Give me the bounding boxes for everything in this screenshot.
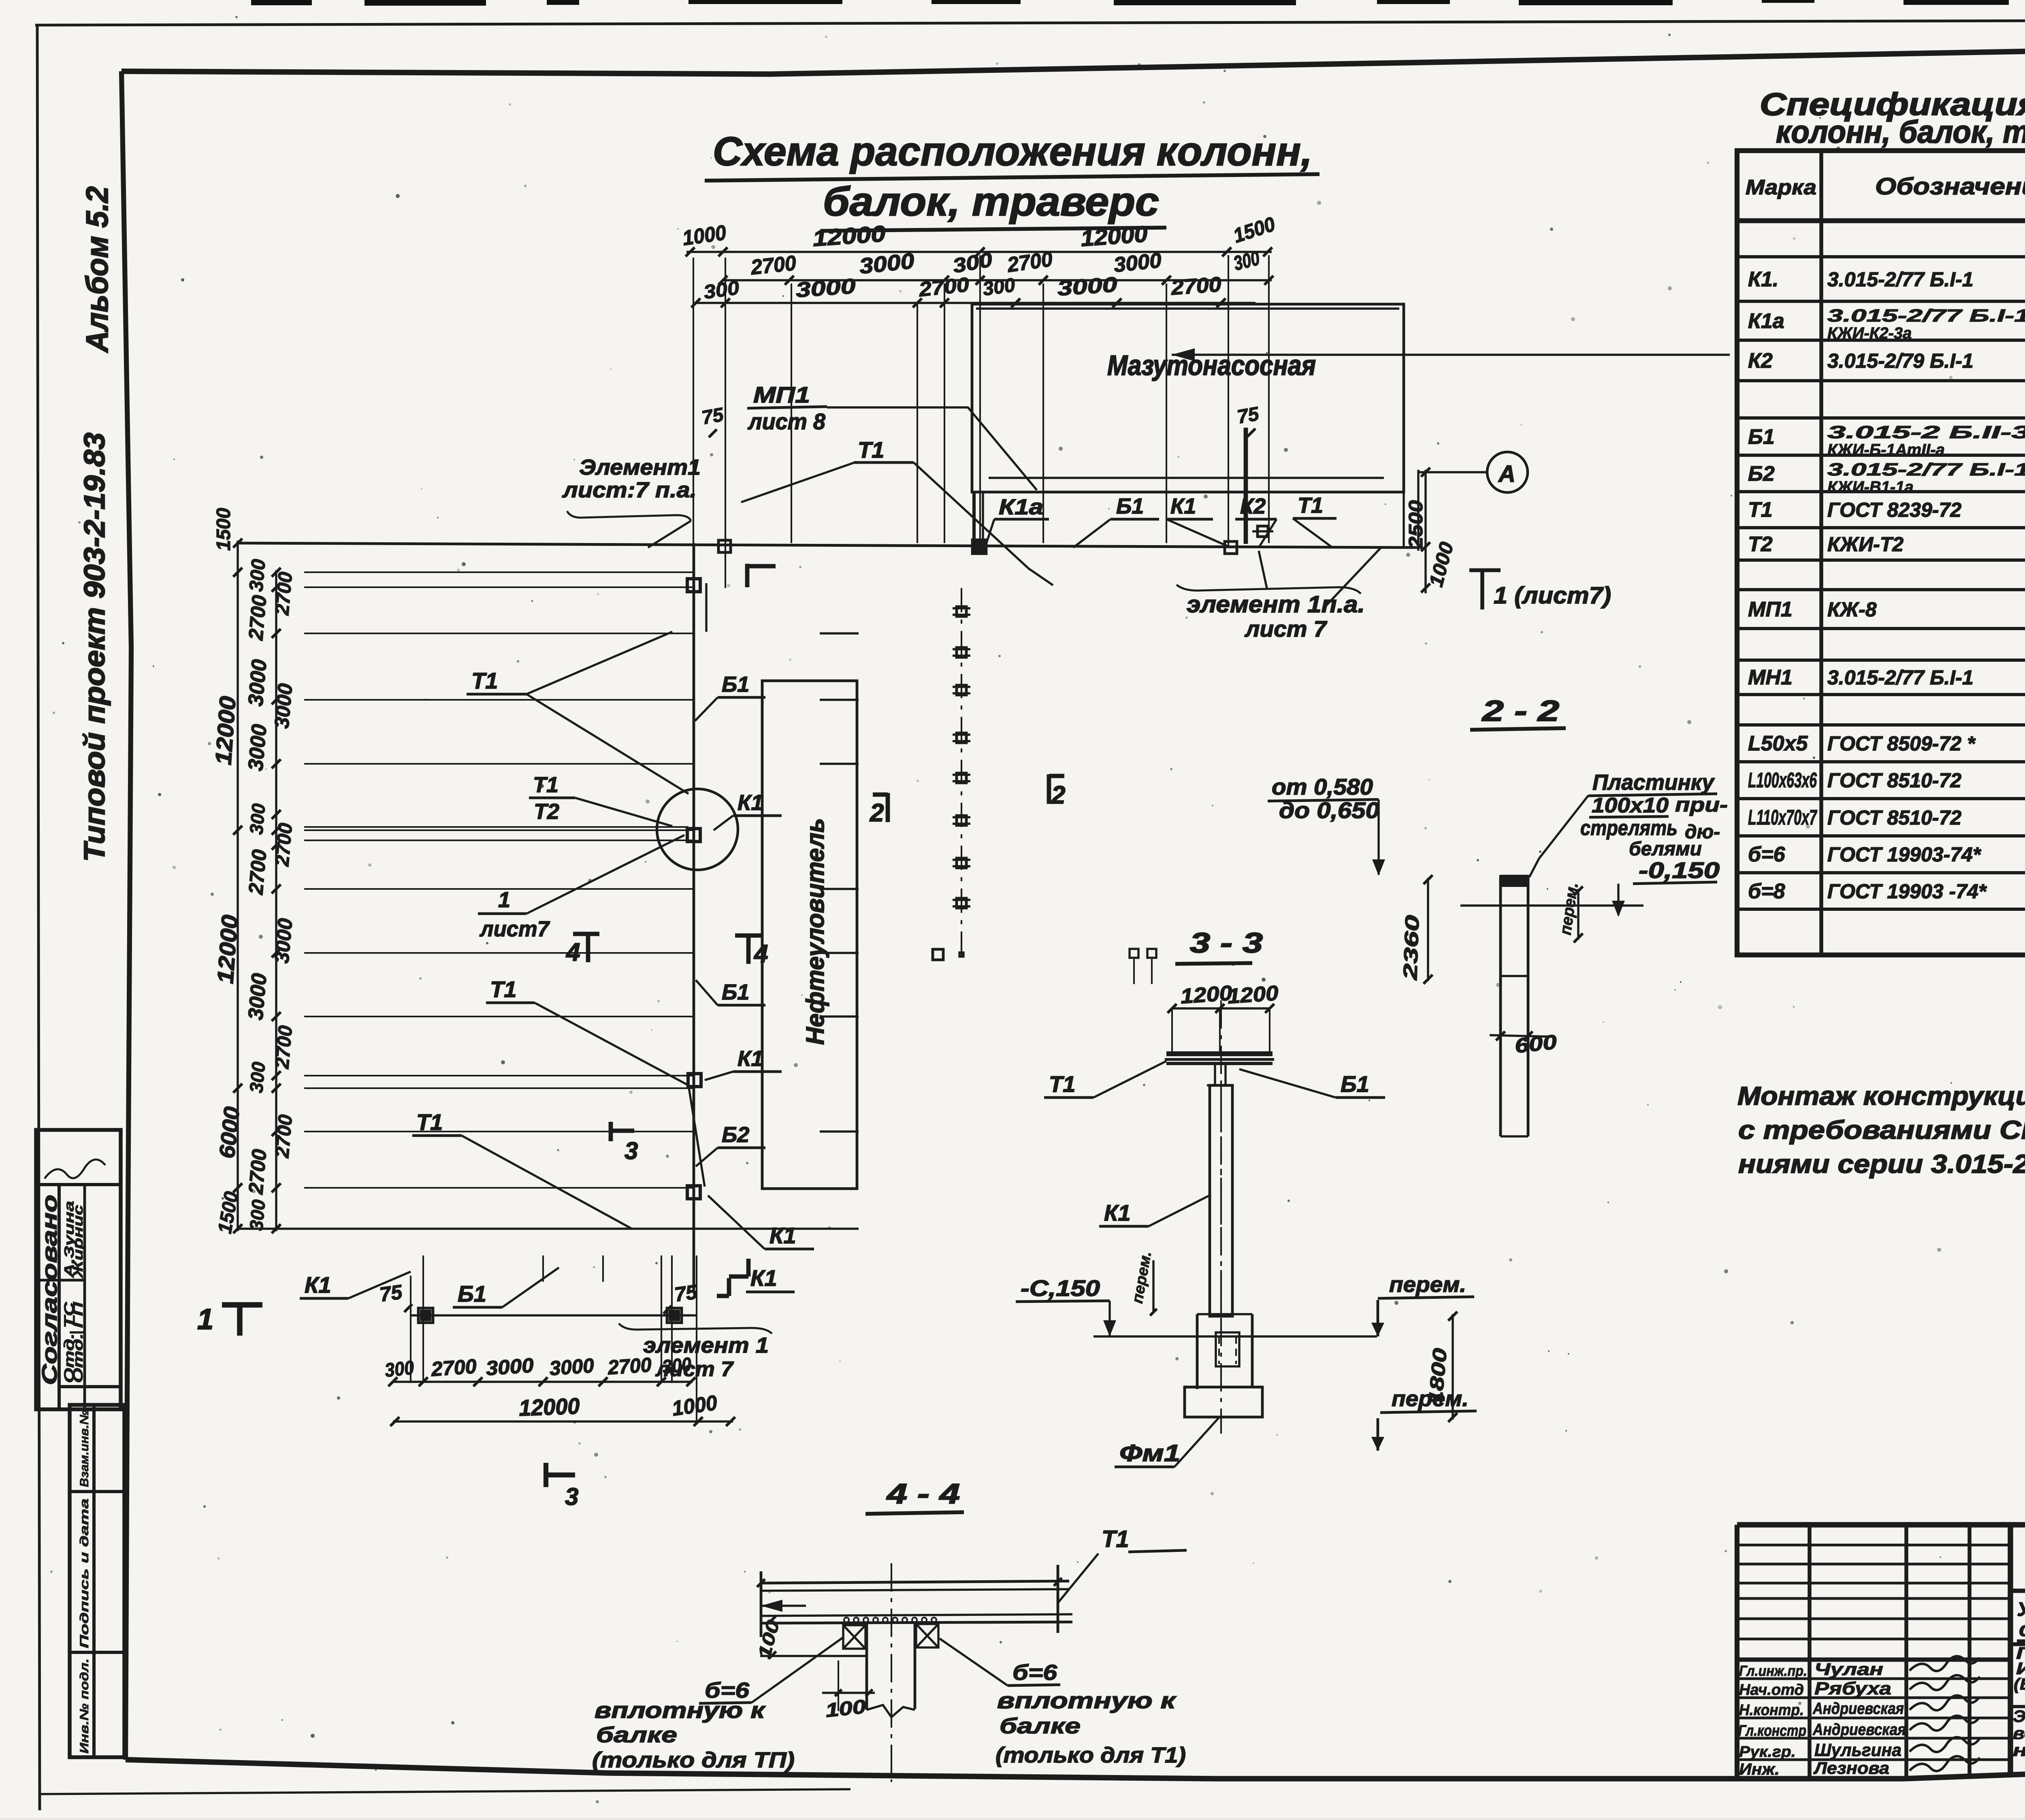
section 2-2 column bottom end xyxy=(1501,1135,1528,1137)
svg-text:МН1: МН1 xyxy=(1748,666,1793,689)
K1 square bottom right xyxy=(669,1310,680,1321)
beam mid line with left arrow xyxy=(761,1605,806,1607)
svg-text:с требованиями СНиПIII-16-80,: с требованиями СНиПIII-16-80, СНиПIII-4-… xyxy=(1738,1115,2025,1144)
svg-text:3000: 3000 xyxy=(270,682,296,729)
soglasovano table frame xyxy=(36,1130,121,1409)
svg-text:К1: К1 xyxy=(1104,1200,1131,1225)
svg-text:Т1: Т1 xyxy=(1102,1526,1129,1552)
svg-text:К1: К1 xyxy=(1170,494,1196,518)
svg-text:КЖИ-Б-1АтII-а: КЖИ-Б-1АтII-а xyxy=(1827,441,1945,459)
svg-text:ГОСТ 19903 -74*: ГОСТ 19903 -74* xyxy=(1827,880,1987,903)
svg-text:К2: К2 xyxy=(1748,349,1773,373)
svg-text:ГОСТ 8510-72: ГОСТ 8510-72 xyxy=(1827,806,1961,829)
detail circle xyxy=(657,789,738,870)
svg-text:2: 2 xyxy=(1051,781,1065,809)
spec table outer border xyxy=(1737,151,2025,955)
spec table column lines xyxy=(1819,151,1823,955)
svg-text:2700: 2700 xyxy=(244,848,271,896)
svg-text:Б1: Б1 xyxy=(722,672,749,697)
svg-text:2700: 2700 xyxy=(430,1355,477,1381)
main axis line top plan xyxy=(238,543,1418,548)
bottom verticals xyxy=(410,1276,411,1383)
K1 square 2062 in detail circle xyxy=(687,829,700,842)
second short line right of column line xyxy=(705,583,707,632)
spec table row lines xyxy=(1737,255,2025,258)
bottom dim chain 12000 1000 xyxy=(393,1420,733,1422)
svg-text:3000: 3000 xyxy=(244,723,271,772)
svg-text:Андриевская: Андриевская xyxy=(1812,1721,1906,1739)
svg-text:Инв.№ подл.: Инв.№ подл. xyxy=(78,1658,91,1754)
bottom dim chain small xyxy=(393,1381,693,1383)
svg-text:4 - 4: 4 - 4 xyxy=(886,1478,960,1509)
element1 brace line xyxy=(567,511,691,521)
svg-text:100х10: 100х10 xyxy=(1592,794,1669,817)
svg-text:Нефтеуловитель: Нефтеуловитель xyxy=(801,818,829,1045)
svg-text:перем.: перем. xyxy=(1392,1387,1469,1411)
svg-text:Б2: Б2 xyxy=(722,1123,749,1147)
svg-text:100: 100 xyxy=(825,1696,867,1722)
svg-text:элемент 1п.а.: элемент 1п.а. xyxy=(1187,591,1365,618)
svg-text:К1а: К1а xyxy=(1748,309,1784,333)
svg-text:1: 1 xyxy=(498,888,510,912)
svg-text:3.015-2/77 Б.I-1: 3.015-2/77 Б.I-1 xyxy=(1827,666,1974,689)
svg-text:Т2: Т2 xyxy=(534,799,559,824)
main title underline 2 xyxy=(821,228,1166,231)
K1 square 1445 xyxy=(687,579,700,592)
weld dots row xyxy=(844,1618,849,1622)
svg-text:12000: 12000 xyxy=(518,1393,580,1421)
svg-text:водов. Схема расположе-: водов. Схема расположе- xyxy=(2013,1724,2025,1743)
traverse right dashes xyxy=(820,632,859,634)
svg-text:3: 3 xyxy=(565,1483,578,1510)
svg-text:75: 75 xyxy=(1236,403,1261,428)
svg-text:3 - 3: 3 - 3 xyxy=(1190,927,1263,959)
svg-text:L100х63х6: L100х63х6 xyxy=(1748,769,1817,792)
svg-text:Инженерные сети.: Инженерные сети. xyxy=(2016,1659,2025,1678)
svg-text:(Вариант с металличес-: (Вариант с металличес- xyxy=(2014,1675,2025,1693)
column centerline 3-3 xyxy=(1220,1000,1222,1434)
svg-text:Б1: Б1 xyxy=(1116,494,1144,518)
G corner mark near 1860 xyxy=(745,564,750,587)
svg-text:МП1: МП1 xyxy=(753,382,810,407)
foundation top line xyxy=(1093,1335,1377,1337)
plan right end vertical xyxy=(1417,470,1419,551)
svg-text:2700: 2700 xyxy=(1170,273,1222,300)
frame left xyxy=(122,71,131,1760)
gusset X right xyxy=(916,1624,938,1647)
svg-text:ГОСТ 8510-72: ГОСТ 8510-72 xyxy=(1827,769,1961,792)
top dim chain3 line xyxy=(696,302,1255,304)
T1 list7 mark xyxy=(1469,568,1501,572)
foundation anchor pocket dashed xyxy=(1216,1332,1239,1366)
svg-text:Установка мазутоснабжения Q=1: Установка мазутоснабжения Q=13и3,25/13м³… xyxy=(2017,1599,2025,1620)
svg-text:белями: белями xyxy=(1629,838,1702,860)
top dim chain 12000 line xyxy=(686,251,1272,253)
lower flange line left xyxy=(760,1655,865,1657)
svg-text:1200: 1200 xyxy=(1180,981,1233,1008)
thick traverse stub at K2 line xyxy=(1244,428,1248,544)
corner mark bottom right xyxy=(746,1259,751,1277)
title block left rows upper xyxy=(1737,1544,2010,1547)
svg-text:1: 1 xyxy=(197,1303,213,1336)
svg-text:К1.: К1. xyxy=(1748,268,1778,291)
section 2-2 column cap xyxy=(1500,875,1529,887)
leader T1 right lower xyxy=(1324,548,1381,607)
svg-text:1 (лист7): 1 (лист7) xyxy=(1494,582,1611,609)
section mark 3 bottom xyxy=(544,1463,548,1487)
soglasovano table lines xyxy=(36,1183,121,1186)
svg-text:2700: 2700 xyxy=(607,1353,652,1379)
svg-text:3000: 3000 xyxy=(795,275,857,302)
svg-text:Т1: Т1 xyxy=(471,668,498,693)
frame top xyxy=(122,42,2025,74)
svg-text:600: 600 xyxy=(1513,1030,1558,1057)
svg-text:Жирнис: Жирнис xyxy=(70,1205,85,1279)
svg-text:Т1: Т1 xyxy=(416,1109,443,1135)
svg-text:4: 4 xyxy=(753,940,768,968)
axis mark circle A xyxy=(1487,452,1528,492)
svg-text:Т1: Т1 xyxy=(858,437,884,462)
svg-text:Б1: Б1 xyxy=(1748,425,1775,449)
svg-text:Б1: Б1 xyxy=(1341,1071,1369,1097)
element 1 list 7 brace bottom xyxy=(619,1323,772,1334)
svg-text:L50х5: L50х5 xyxy=(1748,732,1808,755)
svg-text:Согласовано: Согласовано xyxy=(38,1195,62,1385)
vertical dim 2500 1000 right side xyxy=(1424,470,1426,593)
corner mark bottom xyxy=(727,1278,731,1296)
svg-text:75: 75 xyxy=(700,404,726,429)
title block line under object xyxy=(2010,1642,2025,1644)
title block line under sheet name mid xyxy=(2010,1706,2025,1707)
margin table inv dividers xyxy=(70,1490,124,1493)
svg-text:Марка: Марка xyxy=(1746,176,1816,199)
title block line under doc number xyxy=(2010,1589,2025,1593)
gusset X left xyxy=(843,1625,865,1649)
scan sheet outer edge top xyxy=(35,20,2025,25)
main column line left plan xyxy=(693,543,695,1290)
svg-text:вплотную к: вплотную к xyxy=(997,1688,1177,1713)
K1 square grid 3039 xyxy=(1225,541,1237,554)
section 4-4 beam lines xyxy=(760,1581,1069,1583)
svg-text:ниями серии 3.015-2/77.: ниями серии 3.015-2/77. xyxy=(1738,1149,2025,1179)
svg-text:4: 4 xyxy=(565,938,580,966)
svg-text:при-: при- xyxy=(1675,793,1728,816)
leader from element1 to axis xyxy=(648,521,691,548)
section 2-2 dim 2360 xyxy=(1427,878,1429,981)
svg-text:б=6: б=6 xyxy=(1748,843,1786,866)
title block outer xyxy=(1737,1522,2025,1528)
K1 square bottom left xyxy=(420,1310,431,1321)
svg-text:б=6: б=6 xyxy=(1013,1660,1057,1685)
svg-text:от 0,580: от 0,580 xyxy=(1272,774,1373,799)
svg-text:2700: 2700 xyxy=(271,1025,296,1070)
svg-text:Эстакада паромазутопро-: Эстакада паромазутопро- xyxy=(2013,1707,2025,1726)
svg-text:300: 300 xyxy=(245,1061,269,1093)
svg-text:-С,150: -С,150 xyxy=(1021,1275,1100,1301)
T1 square with tie 3118 xyxy=(1258,526,1268,537)
svg-text:Инж.: Инж. xyxy=(1739,1760,1780,1778)
dim 100 horizontal xyxy=(822,1692,875,1694)
K1 square grid 1789 xyxy=(718,540,731,552)
frame bottom xyxy=(126,1755,2025,1779)
soglasovano signature scribble xyxy=(45,1159,105,1179)
svg-text:лист 8: лист 8 xyxy=(747,409,826,434)
svg-text:К1: К1 xyxy=(305,1272,331,1298)
svg-text:3000: 3000 xyxy=(1057,273,1118,300)
svg-text:А: А xyxy=(1498,461,1516,487)
svg-text:лист7: лист7 xyxy=(479,917,550,941)
svg-text:12000: 12000 xyxy=(210,695,241,766)
svg-text:Т1: Т1 xyxy=(490,976,516,1002)
section 2-2 column body xyxy=(1499,876,1502,1136)
svg-text:3.015-2/79 Б.I-1: 3.015-2/79 Б.I-1 xyxy=(1827,350,1974,372)
svg-text:ния кэлонн, балок,: ния кэлонн, балок, xyxy=(2013,1741,2025,1760)
svg-text:Н.контр.: Н.контр. xyxy=(1739,1702,1804,1719)
scan top edge marks xyxy=(251,0,2025,6)
svg-text:300: 300 xyxy=(384,1357,415,1381)
svg-text:лист:7 п.а.: лист:7 п.а. xyxy=(562,478,697,502)
section mark 2 left xyxy=(886,793,890,822)
svg-text:Т1: Т1 xyxy=(1049,1071,1075,1097)
svg-text:Т2: Т2 xyxy=(1748,533,1773,556)
svg-text:1500: 1500 xyxy=(213,508,234,551)
svg-text:К1а: К1а xyxy=(999,495,1043,519)
foundation body xyxy=(1196,1314,1199,1387)
svg-text:перем.: перем. xyxy=(1389,1272,1466,1297)
svg-text:3000: 3000 xyxy=(485,1354,535,1380)
column centerline 4-4 xyxy=(891,1563,892,1782)
section 3-3 hanger plates xyxy=(1214,1065,1216,1085)
svg-text:Т1: Т1 xyxy=(1748,498,1773,522)
svg-text:б=8: б=8 xyxy=(1748,880,1785,903)
pump house outline Mazutonasosnaya xyxy=(972,304,1404,492)
svg-text:2: 2 xyxy=(870,799,884,827)
svg-text:Схема расположения колонн,: Схема расположения колонн, xyxy=(713,129,1312,174)
svg-text:Пластинку: Пластинку xyxy=(1592,770,1715,795)
svg-text:ГОСТ 8509-72 *: ГОСТ 8509-72 * xyxy=(1827,732,1976,755)
scan sheet bottom shadow xyxy=(40,1789,850,1794)
double axis line pair at 2656 xyxy=(304,826,688,828)
svg-text:Б1: Б1 xyxy=(722,980,749,1004)
svg-text:Нач.отд: Нач.отд xyxy=(1739,1681,1804,1699)
section 4-4 beam end ticks xyxy=(760,1571,763,1637)
svg-text:с резервуарами 2х1000 м³: с резервуарами 2х1000 м³ xyxy=(2019,1618,2025,1641)
pump house inner bottom line xyxy=(989,477,1384,479)
svg-text:К2: К2 xyxy=(1240,494,1266,518)
section mark 4 right xyxy=(746,934,751,964)
svg-text:75: 75 xyxy=(378,1281,404,1306)
traverse lines left plan xyxy=(304,571,694,573)
svg-text:ГОСТ 19903-74*: ГОСТ 19903-74* xyxy=(1827,843,1982,866)
svg-text:3.015-2/77 Б.I-1: 3.015-2/77 Б.I-1 xyxy=(1827,268,1974,291)
title block vertical dividers left part xyxy=(1808,1525,1812,1777)
left inner dim line xyxy=(275,570,277,1231)
svg-text:2700: 2700 xyxy=(244,594,271,641)
svg-text:2700: 2700 xyxy=(244,1148,271,1196)
svg-text:3: 3 xyxy=(625,1137,638,1164)
svg-text:(только для ТП): (только для ТП) xyxy=(592,1748,795,1772)
section 3-3 traverse cap xyxy=(1166,1051,1273,1056)
column break bottom xyxy=(867,1705,915,1717)
column stub below pump house K1a xyxy=(972,492,976,545)
svg-text:2700: 2700 xyxy=(271,1114,296,1159)
section mark 3 upper xyxy=(609,1122,613,1141)
svg-text:КЖИ-К2-3а: КЖИ-К2-3а xyxy=(1827,324,1912,342)
svg-text:12000: 12000 xyxy=(212,914,243,985)
section 2-2 column lines xyxy=(1501,975,1528,977)
section 2-2 perem dim xyxy=(1577,889,1579,940)
svg-text:Б1: Б1 xyxy=(458,1281,486,1306)
svg-text:стрелять: стрелять xyxy=(1580,816,1678,840)
svg-text:КЖИ-В1-1а: КЖИ-В1-1а xyxy=(1827,478,1914,496)
svg-text:лист 7: лист 7 xyxy=(1244,616,1328,641)
section 4-4 column xyxy=(865,1623,868,1710)
svg-text:300: 300 xyxy=(981,274,1017,300)
svg-text:вплотную к: вплотную к xyxy=(595,1697,766,1723)
svg-text:300: 300 xyxy=(245,802,269,835)
svg-text:К1: К1 xyxy=(738,1046,763,1071)
K1a square top plan xyxy=(974,541,985,552)
svg-text:Элемент1: Элемент1 xyxy=(579,455,701,480)
svg-text:75: 75 xyxy=(673,1281,699,1306)
svg-text:2700: 2700 xyxy=(271,571,296,616)
svg-text:1200: 1200 xyxy=(1227,981,1279,1008)
svg-text:3000: 3000 xyxy=(1113,249,1162,277)
svg-text:3000: 3000 xyxy=(549,1354,595,1380)
svg-text:-0,150: -0,150 xyxy=(1639,857,1720,883)
MP1 leader lines xyxy=(827,407,1037,490)
svg-text:К1: К1 xyxy=(750,1265,777,1291)
neft trap rectangle Nefteulovitel xyxy=(762,681,857,1189)
svg-text:Т1: Т1 xyxy=(533,773,558,797)
grid extension verticals top plan xyxy=(693,258,694,632)
svg-text:2 - 2: 2 - 2 xyxy=(1481,695,1559,727)
svg-text:3.015-2/77 Б.I-1: 3.015-2/77 Б.I-1 xyxy=(1827,460,2025,480)
svg-text:2700: 2700 xyxy=(271,822,296,867)
K1 square 2667 xyxy=(688,1074,701,1087)
spec table header bottom xyxy=(1737,218,2025,223)
T1 leader fan xyxy=(741,462,855,502)
svg-text:Отд. ГП: Отд. ГП xyxy=(70,1301,86,1383)
section 2-2 ground line xyxy=(1460,904,1643,906)
svg-text:Т1: Т1 xyxy=(1298,493,1323,518)
svg-text:Б2: Б2 xyxy=(1748,462,1775,486)
svg-text:Обозначение: Обозначение xyxy=(1875,173,2025,200)
end tie square offset xyxy=(933,949,943,960)
svg-text:300: 300 xyxy=(245,1198,269,1231)
svg-text:3.015-2/77 Б.I-1: 3.015-2/77 Б.I-1 xyxy=(1827,306,2025,326)
svg-text:12000: 12000 xyxy=(812,221,886,251)
bottom boundary line left plan xyxy=(238,1228,859,1230)
svg-text:3.015-2 Б.II-3: 3.015-2 Б.II-3 xyxy=(1827,422,2025,442)
element 1pa list7 bottom labels xyxy=(1177,585,1361,594)
svg-text:3000: 3000 xyxy=(244,972,271,1021)
plastinku leader xyxy=(1529,795,1588,877)
svg-text:элемент 1: элемент 1 xyxy=(643,1333,769,1358)
svg-text:Монтаж конструкций производи: Монтаж конструкций производить в соответ… xyxy=(1737,1081,2025,1110)
title block left rows signatures xyxy=(1737,1658,2010,1662)
svg-text:Шульгина: Шульгина xyxy=(1814,1740,1901,1760)
long axis line to A xyxy=(1172,354,1730,356)
svg-text:Фм1: Фм1 xyxy=(1119,1440,1180,1466)
svg-text:L110х70х7: L110х70х7 xyxy=(1748,806,1817,829)
svg-text:балок, траверс: балок, траверс xyxy=(823,179,1159,224)
svg-text:Андриевская: Андриевская xyxy=(1812,1700,1904,1718)
scan sheet outer edge left xyxy=(37,25,40,1810)
section mark 2 right xyxy=(1047,774,1051,804)
plan cut squares 2-2 location xyxy=(1130,949,1138,958)
svg-text:балке: балке xyxy=(596,1723,677,1747)
svg-text:Типовой проект 903-2-19.83: Типовой проект 903-2-19.83 xyxy=(79,433,111,862)
K1 square 2944 xyxy=(687,1186,700,1199)
svg-text:К1: К1 xyxy=(738,791,763,815)
svg-text:12000: 12000 xyxy=(1080,221,1148,251)
level arrow down 2-2 xyxy=(1377,799,1379,875)
svg-text:Лезнова: Лезнова xyxy=(1813,1758,1889,1777)
svg-text:колонн, балок, траверс эстак: колонн, балок, траверс эстакады xyxy=(1776,114,2025,149)
svg-text:(только для Т1): (только для Т1) xyxy=(995,1743,1186,1767)
section mark 4 left xyxy=(586,932,590,962)
dash-dot centerline T2 row xyxy=(961,588,962,959)
bottom axis line with end columns xyxy=(411,1314,697,1316)
svg-text:Рябуха: Рябуха xyxy=(1814,1679,1891,1699)
svg-text:балке: балке xyxy=(1000,1714,1081,1738)
section 3-3 column body xyxy=(1210,1085,1232,1316)
top dim chain2 line xyxy=(723,279,1272,281)
svg-text:2700: 2700 xyxy=(749,251,797,279)
svg-text:2500: 2500 xyxy=(1405,500,1427,549)
left outer dim line xyxy=(237,541,239,1231)
svg-text:Гл.инж.пр.: Гл.инж.пр. xyxy=(1739,1662,1807,1679)
dim 1800 xyxy=(1452,1314,1454,1419)
svg-text:3000: 3000 xyxy=(244,659,271,707)
axis line to circle A xyxy=(1418,471,1487,473)
svg-text:КЖИ-Т2: КЖИ-Т2 xyxy=(1827,533,1904,556)
svg-text:К1: К1 xyxy=(769,1223,796,1248)
svg-text:3000: 3000 xyxy=(270,917,296,964)
svg-text:МП1: МП1 xyxy=(1748,598,1793,621)
margin table inv frame xyxy=(70,1405,124,1757)
tie pair near bottom xyxy=(959,953,963,957)
signature scribbles xyxy=(1910,1656,1980,1671)
pump house right edge to axis xyxy=(1403,492,1405,548)
svg-text:Подпись и дата: Подпись и дата xyxy=(78,1498,91,1648)
svg-text:Альбом 5.2: Альбом 5.2 xyxy=(80,186,115,353)
svg-text:300: 300 xyxy=(661,1354,693,1378)
main title underline 1 xyxy=(705,174,1319,181)
svg-text:Взам.инв.№: Взам.инв.№ xyxy=(78,1410,91,1487)
svg-text:ГОСТ 8239-72: ГОСТ 8239-72 xyxy=(1827,499,1961,521)
svg-text:Чулан: Чулан xyxy=(1814,1660,1883,1679)
svg-text:Рук.гр.: Рук.гр. xyxy=(1739,1743,1796,1760)
svg-text:2360: 2360 xyxy=(1400,914,1424,981)
svg-text:Гл.констр: Гл.констр xyxy=(1738,1722,1806,1739)
tie squares on centerline xyxy=(957,607,966,616)
svg-text:КЖ-8: КЖ-8 xyxy=(1827,598,1877,621)
svg-text:300: 300 xyxy=(245,558,270,592)
